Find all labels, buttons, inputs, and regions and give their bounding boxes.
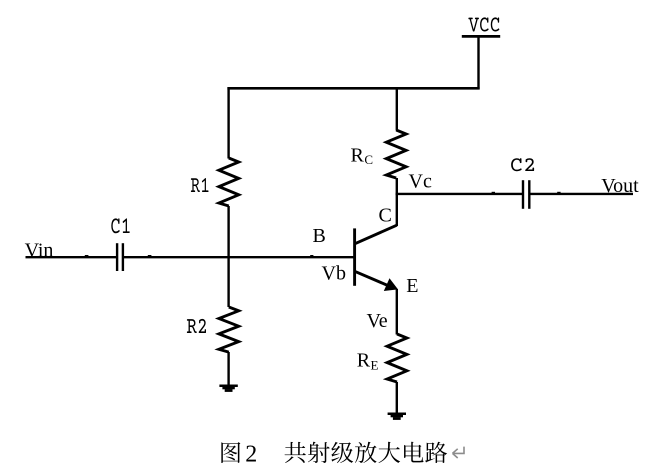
wire rail to Rc: [396, 87, 398, 130]
caption character 电: [404, 442, 423, 463]
svg-text:Ve: Ve: [367, 310, 388, 332]
label VCC: [468, 17, 499, 31]
resistor Rc: [386, 130, 406, 178]
label R2: [187, 319, 206, 333]
ground under RE: [388, 413, 406, 420]
wire RE to ground: [396, 382, 398, 414]
wire node Vc to C2: [396, 193, 522, 195]
label Vb: [322, 263, 346, 285]
svg-text:R: R: [357, 350, 371, 372]
wire R1 branch top: [227, 87, 229, 158]
wire joint mark 1: [85, 255, 89, 256]
label C: [379, 205, 392, 227]
label Ve: [367, 310, 388, 332]
svg-text:2: 2: [245, 441, 257, 467]
wire R2 to ground: [227, 352, 229, 386]
label C2: [511, 158, 534, 171]
label C1: [111, 218, 129, 233]
transistor Q1 base bar: [353, 228, 356, 285]
label RE: [357, 350, 379, 373]
label Vin: [25, 239, 54, 261]
label Vout: [601, 175, 639, 197]
wire R1 to node B junction: [227, 206, 229, 257]
resistor RE: [387, 334, 407, 382]
wire top rail: [227, 87, 479, 90]
svg-text:Vout: Vout: [601, 175, 639, 197]
transistor Q1 collector lead: [355, 225, 397, 244]
wire C2 to Vout: [530, 193, 633, 195]
wire joint mark 5: [310, 255, 313, 256]
caption character 路: [425, 442, 447, 463]
resistor R2: [219, 307, 239, 352]
wire C1 to transistor base: [124, 256, 355, 258]
transistor Q1 emitter lead with arrow: [355, 271, 398, 291]
svg-text:Vb: Vb: [322, 263, 346, 285]
label Rc: [351, 145, 374, 167]
caption character 图: [221, 442, 240, 463]
caption character 射: [308, 442, 330, 463]
svg-text:E: E: [371, 358, 379, 373]
caption character 放: [355, 442, 377, 463]
wire joint mark 3: [492, 192, 495, 193]
svg-text:R: R: [351, 145, 365, 167]
svg-text:Vc: Vc: [409, 170, 432, 192]
wire joint mark 4: [557, 192, 560, 193]
svg-text:C: C: [364, 152, 373, 167]
paragraph return mark: [453, 447, 465, 458]
wire Vin to C1: [26, 256, 117, 258]
wire Rc to node Vc: [396, 178, 398, 195]
caption character 共: [285, 442, 306, 463]
wire joint mark 2: [148, 255, 152, 256]
wire emitter to RE: [396, 289, 398, 335]
wire junction to R2: [227, 257, 229, 307]
wire collector to node Vc: [396, 194, 398, 226]
caption text 2: [245, 441, 257, 467]
label R1: [191, 178, 209, 192]
caption character 大: [379, 442, 401, 463]
wire VCC stem: [477, 36, 479, 89]
label Vc: [409, 170, 432, 192]
ground under R2: [219, 385, 237, 392]
capacitor C1: [117, 243, 123, 271]
label E: [406, 275, 418, 297]
label B: [313, 225, 326, 247]
svg-text:C: C: [379, 205, 392, 227]
resistor R1: [219, 158, 239, 206]
power symbol VCC bar: [462, 35, 500, 38]
svg-text:B: B: [313, 225, 326, 247]
svg-text:Vin: Vin: [25, 239, 54, 261]
capacitor C2: [523, 180, 529, 209]
caption character 级: [331, 442, 353, 463]
svg-text:E: E: [406, 275, 418, 297]
